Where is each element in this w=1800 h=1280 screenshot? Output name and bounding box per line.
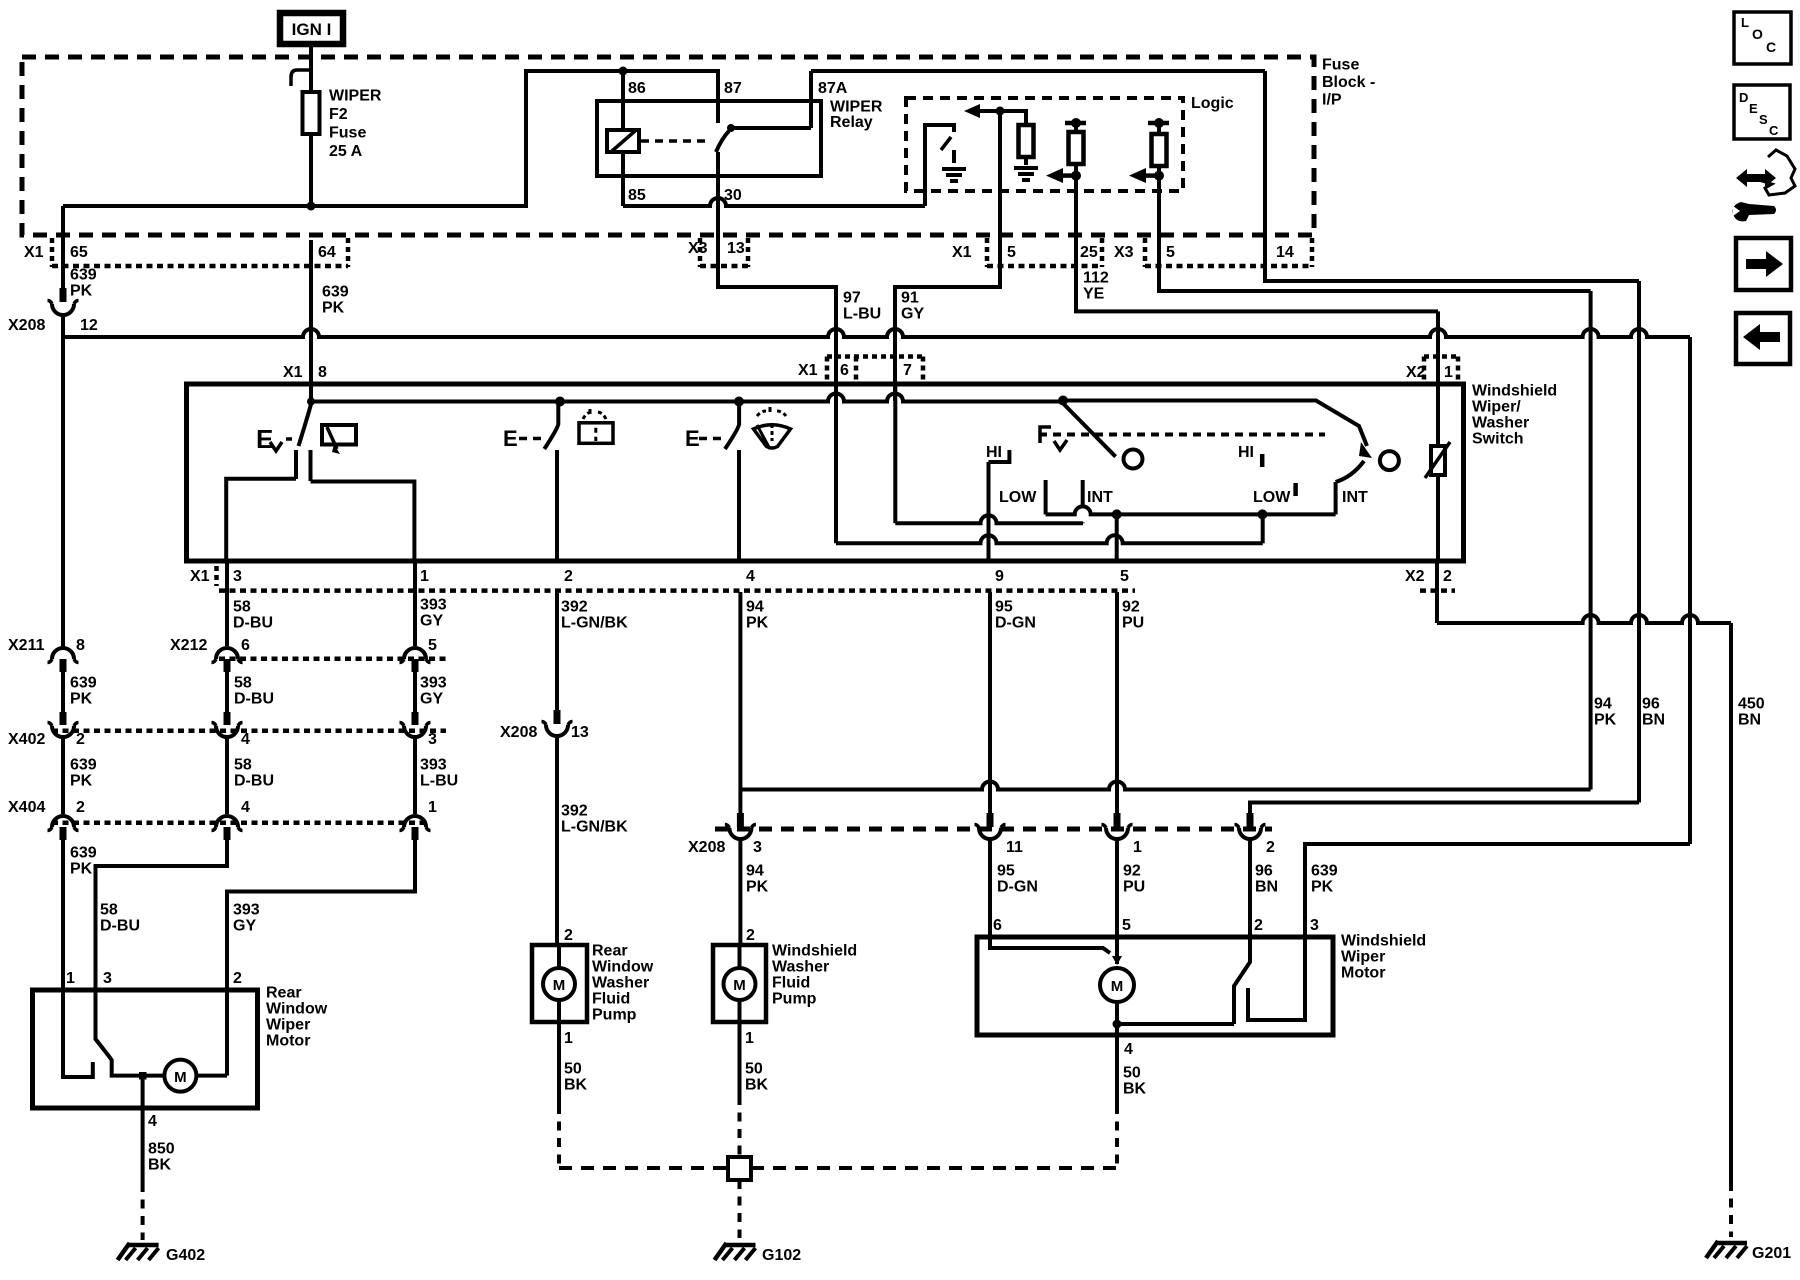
svg-text:393: 393 (420, 757, 447, 774)
svg-text:2: 2 (76, 731, 85, 748)
svg-text:7: 7 (903, 362, 912, 379)
svg-text:Wiper: Wiper (1341, 949, 1385, 966)
svg-text:86: 86 (628, 80, 646, 97)
svg-text:4: 4 (241, 799, 250, 816)
svg-text:M: M (1111, 978, 1124, 995)
svg-text:2: 2 (564, 568, 573, 585)
svg-text:X1: X1 (798, 362, 818, 379)
svg-text:Washer: Washer (592, 975, 649, 992)
svg-text:HI: HI (986, 444, 1002, 461)
svg-text:Fluid: Fluid (772, 975, 810, 992)
svg-text:M: M (174, 1069, 187, 1086)
svg-text:6: 6 (840, 362, 849, 379)
svg-text:D-GN: D-GN (995, 615, 1036, 632)
svg-text:639: 639 (70, 757, 97, 774)
svg-text:BN: BN (1738, 712, 1761, 729)
svg-text:PK: PK (70, 283, 93, 300)
svg-text:X3: X3 (1114, 244, 1134, 261)
svg-text:95: 95 (995, 599, 1013, 616)
svg-text:4: 4 (746, 568, 755, 585)
svg-text:PK: PK (746, 615, 769, 632)
svg-text:C: C (1766, 39, 1776, 55)
svg-text:2: 2 (1266, 839, 1275, 856)
svg-text:94: 94 (1594, 696, 1612, 713)
svg-text:M: M (733, 977, 746, 994)
svg-text:L-GN/BK: L-GN/BK (561, 819, 628, 836)
svg-text:PK: PK (70, 691, 93, 708)
svg-text:WIPER: WIPER (329, 88, 382, 105)
svg-text:D: D (1739, 90, 1748, 105)
svg-text:Pump: Pump (592, 1007, 637, 1024)
svg-text:Wiper/: Wiper/ (1472, 399, 1521, 416)
svg-text:94: 94 (746, 599, 764, 616)
svg-text:Motor: Motor (1341, 965, 1385, 982)
svg-text:Washer: Washer (772, 959, 829, 976)
svg-text:GY: GY (420, 691, 443, 708)
svg-text:Fluid: Fluid (592, 991, 630, 1008)
svg-text:3: 3 (103, 970, 112, 987)
svg-text:G102: G102 (762, 1247, 801, 1264)
svg-text:HI: HI (1238, 444, 1254, 461)
svg-text:3: 3 (233, 568, 242, 585)
svg-text:1: 1 (66, 970, 75, 987)
svg-text:Fuse: Fuse (329, 125, 366, 142)
svg-text:PU: PU (1123, 879, 1145, 896)
svg-text:8: 8 (318, 364, 327, 381)
svg-text:58: 58 (234, 757, 252, 774)
svg-text:91: 91 (901, 290, 919, 307)
svg-text:Windshield: Windshield (772, 943, 857, 960)
svg-text:2: 2 (1254, 917, 1263, 934)
svg-text:87A: 87A (818, 80, 848, 97)
svg-text:5: 5 (428, 637, 437, 654)
svg-text:Pump: Pump (772, 991, 817, 1008)
svg-text:BN: BN (1642, 712, 1665, 729)
svg-text:9: 9 (995, 568, 1004, 585)
svg-text:PK: PK (70, 861, 93, 878)
svg-text:BK: BK (564, 1077, 588, 1094)
svg-text:392: 392 (561, 599, 588, 616)
svg-text:64: 64 (318, 244, 336, 261)
svg-text:6: 6 (241, 637, 250, 654)
svg-text:PK: PK (1594, 712, 1617, 729)
svg-text:2: 2 (233, 970, 242, 987)
svg-text:14: 14 (1276, 244, 1294, 261)
svg-text:13: 13 (727, 240, 745, 257)
svg-text:PK: PK (746, 879, 769, 896)
svg-text:95: 95 (997, 863, 1015, 880)
svg-text:S: S (1759, 112, 1768, 127)
svg-text:E: E (256, 424, 273, 454)
svg-text:639: 639 (70, 675, 97, 692)
svg-text:5: 5 (1120, 568, 1129, 585)
svg-text:X1: X1 (952, 244, 972, 261)
svg-text:25: 25 (1080, 244, 1098, 261)
svg-text:4: 4 (1124, 1041, 1133, 1058)
svg-text:639: 639 (1311, 863, 1338, 880)
svg-text:LOW: LOW (999, 489, 1037, 506)
svg-text:X2: X2 (1405, 568, 1425, 585)
svg-text:Block -: Block - (1322, 74, 1375, 91)
svg-text:58: 58 (100, 902, 118, 919)
svg-text:INT: INT (1087, 489, 1113, 506)
svg-text:5: 5 (1122, 917, 1131, 934)
svg-text:Logic: Logic (1191, 95, 1234, 112)
svg-text:450: 450 (1738, 696, 1765, 713)
svg-text:Windshield: Windshield (1341, 933, 1426, 950)
svg-text:D-BU: D-BU (233, 615, 273, 632)
svg-text:E: E (503, 426, 518, 451)
svg-text:Switch: Switch (1472, 431, 1524, 448)
svg-text:58: 58 (234, 675, 252, 692)
svg-text:30: 30 (724, 187, 742, 204)
svg-text:PU: PU (1122, 615, 1144, 632)
svg-text:11: 11 (1006, 839, 1023, 856)
svg-text:1: 1 (420, 568, 429, 585)
svg-text:X404: X404 (8, 799, 45, 816)
svg-text:50: 50 (564, 1061, 582, 1078)
svg-text:393: 393 (233, 902, 260, 919)
svg-text:50: 50 (745, 1061, 763, 1078)
svg-text:50: 50 (1123, 1065, 1141, 1082)
svg-text:Window: Window (266, 1001, 328, 1018)
svg-text:GY: GY (901, 306, 924, 323)
svg-text:65: 65 (70, 244, 88, 261)
svg-text:85: 85 (628, 187, 646, 204)
svg-text:392: 392 (561, 803, 588, 820)
svg-text:1: 1 (1133, 839, 1142, 856)
svg-text:D-GN: D-GN (997, 879, 1038, 896)
svg-text:639: 639 (70, 267, 97, 284)
svg-text:1: 1 (428, 799, 437, 816)
svg-text:X3: X3 (688, 240, 708, 257)
svg-text:393: 393 (420, 597, 447, 614)
svg-text:5: 5 (1166, 244, 1175, 261)
svg-text:87: 87 (724, 80, 742, 97)
svg-text:X208: X208 (500, 724, 537, 741)
svg-text:850: 850 (148, 1141, 175, 1158)
svg-text:PK: PK (322, 300, 345, 317)
svg-text:13: 13 (571, 724, 589, 741)
svg-text:BK: BK (1123, 1081, 1147, 1098)
svg-text:Rear: Rear (266, 985, 302, 1002)
svg-text:639: 639 (70, 845, 97, 862)
svg-text:X1: X1 (283, 364, 303, 381)
svg-text:X208: X208 (688, 839, 725, 856)
svg-text:1: 1 (564, 1030, 573, 1047)
svg-text:D-BU: D-BU (100, 918, 140, 935)
svg-text:D-BU: D-BU (234, 691, 274, 708)
svg-text:M: M (553, 977, 566, 994)
svg-text:X212: X212 (170, 637, 207, 654)
svg-text:Relay: Relay (830, 114, 873, 131)
svg-text:639: 639 (322, 284, 349, 301)
svg-text:97: 97 (843, 290, 861, 307)
svg-text:GY: GY (420, 613, 443, 630)
svg-text:L: L (1741, 15, 1749, 30)
svg-text:INT: INT (1342, 489, 1368, 506)
svg-text:4: 4 (241, 731, 250, 748)
svg-text:12: 12 (80, 317, 98, 334)
svg-text:X402: X402 (8, 731, 45, 748)
svg-text:PK: PK (70, 773, 93, 790)
svg-text:IGN I: IGN I (292, 20, 332, 39)
svg-text:E: E (1749, 101, 1758, 116)
svg-text:3: 3 (753, 839, 762, 856)
svg-text:L-BU: L-BU (843, 306, 881, 323)
svg-text:Washer: Washer (1472, 415, 1529, 432)
svg-text:Rear: Rear (592, 943, 628, 960)
svg-text:L-BU: L-BU (420, 773, 458, 790)
svg-text:5: 5 (1007, 244, 1016, 261)
svg-text:X1: X1 (190, 568, 210, 585)
svg-text:1: 1 (1444, 364, 1453, 381)
svg-text:GY: GY (233, 918, 256, 935)
svg-text:I/P: I/P (1322, 92, 1342, 109)
svg-text:58: 58 (233, 599, 251, 616)
svg-text:2: 2 (564, 927, 573, 944)
svg-text:Fuse: Fuse (1322, 57, 1359, 74)
svg-text:LOW: LOW (1253, 489, 1291, 506)
svg-text:X208: X208 (8, 317, 45, 334)
svg-text:8: 8 (76, 637, 85, 654)
svg-text:D-BU: D-BU (234, 773, 274, 790)
svg-text:Windshield: Windshield (1472, 383, 1557, 400)
svg-text:G201: G201 (1752, 1245, 1791, 1262)
svg-text:92: 92 (1123, 863, 1141, 880)
svg-text:2: 2 (746, 927, 755, 944)
svg-text:Wiper: Wiper (266, 1017, 310, 1034)
svg-text:G402: G402 (166, 1247, 205, 1264)
svg-text:BK: BK (148, 1157, 172, 1174)
svg-text:96: 96 (1642, 696, 1660, 713)
svg-text:2: 2 (1443, 568, 1452, 585)
svg-text:92: 92 (1122, 599, 1140, 616)
svg-text:YE: YE (1083, 286, 1105, 303)
svg-text:X2: X2 (1406, 364, 1426, 381)
svg-text:O: O (1752, 26, 1763, 42)
svg-text:3: 3 (1310, 917, 1319, 934)
svg-text:Motor: Motor (266, 1033, 310, 1050)
svg-text:112: 112 (1083, 270, 1109, 287)
svg-text:BK: BK (745, 1077, 769, 1094)
svg-text:96: 96 (1255, 863, 1273, 880)
svg-text:Window: Window (592, 959, 654, 976)
svg-text:X1: X1 (24, 244, 44, 261)
svg-text:E: E (685, 426, 700, 451)
svg-text:393: 393 (420, 675, 447, 692)
svg-text:6: 6 (993, 917, 1002, 934)
svg-text:BN: BN (1255, 879, 1278, 896)
svg-text:C: C (1769, 123, 1779, 138)
svg-text:F2: F2 (329, 106, 348, 123)
svg-text:1: 1 (745, 1030, 754, 1047)
svg-text:WIPER: WIPER (830, 99, 883, 116)
svg-text:2: 2 (76, 799, 85, 816)
svg-text:4: 4 (148, 1113, 157, 1130)
svg-text:PK: PK (1311, 879, 1334, 896)
svg-text:3: 3 (428, 731, 437, 748)
svg-text:94: 94 (746, 863, 764, 880)
svg-text:L-GN/BK: L-GN/BK (561, 615, 628, 632)
svg-text:X211: X211 (8, 637, 45, 654)
svg-text:25 A: 25 A (329, 143, 363, 160)
